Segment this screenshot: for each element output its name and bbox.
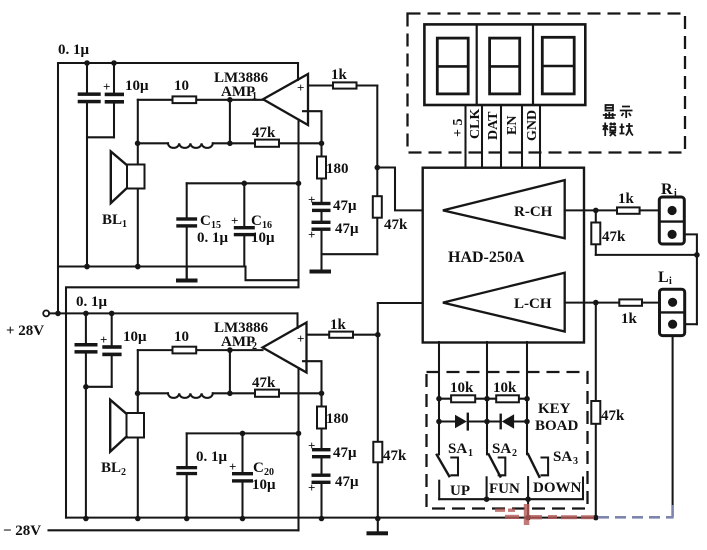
svg-text:EN: EN (505, 116, 520, 135)
wire +28V rail (49, 311, 297, 317)
svg-text:FUN: FUN (489, 481, 520, 497)
wire cap return AMP2 (83, 387, 89, 522)
wire key common rail (439, 478, 583, 500)
svg-text:R: R (661, 181, 673, 198)
diode D2 (487, 414, 527, 429)
wire cap join AMP2 (83, 384, 112, 390)
wire ground rail AMP1 (58, 264, 246, 270)
inductor AMP2 output coil (138, 393, 255, 398)
svg-text:+: + (297, 80, 304, 95)
wire L jack shield drop (672, 336, 674, 505)
svg-text:C: C (253, 460, 264, 476)
capacitor C15 0.1u (176, 183, 228, 278)
inductor AMP1 output coil (138, 143, 255, 148)
svg-text:2: 2 (121, 467, 126, 478)
junction dots top rail AMP1 (84, 60, 117, 66)
node output left leg AMP1 (135, 100, 141, 146)
resistor 180 AMP1 (317, 143, 349, 202)
wire cap return AMP1 (84, 137, 90, 269)
capacitor C16 10u (231, 183, 275, 266)
svg-text:1k: 1k (330, 317, 347, 333)
svg-text:10: 10 (174, 78, 189, 94)
wire R jack ground leg (684, 234, 697, 324)
speaker BL2 (101, 393, 144, 521)
wire -28V line (3, 523, 299, 539)
svg-text:DAT: DAT (486, 111, 501, 140)
ground bottom rail (367, 519, 389, 536)
label display module (CJK) (603, 105, 634, 136)
op-amp U1 LM3886 AMP1 (214, 63, 308, 280)
pin DAT (486, 105, 501, 168)
node output right leg AMP2 (227, 347, 233, 396)
svg-text:SA: SA (448, 441, 467, 457)
resistor 47k L bias (591, 303, 625, 521)
svg-text:+: + (229, 459, 236, 474)
svg-text:CLK: CLK (468, 109, 483, 139)
wire keyboard column 1 (436, 342, 442, 454)
svg-text:C: C (200, 213, 211, 229)
wire cap join AMP1 (87, 136, 114, 138)
switch SA1 (437, 441, 473, 476)
svg-text:180: 180 (326, 411, 349, 427)
resistor 1k L jack (619, 299, 659, 327)
resistor 47k feedback AMP1 (252, 125, 322, 147)
display outer box (424, 24, 585, 105)
7-segment digit 3 (542, 37, 574, 94)
svg-text:L-CH: L-CH (514, 296, 552, 312)
resistor 1k AMP1 input (308, 67, 377, 89)
svg-text:10k: 10k (493, 380, 517, 396)
svg-text:AMP: AMP (221, 84, 255, 100)
wire feedback line AMP2 (C19/C20 top) (187, 431, 302, 437)
svg-text:SA: SA (492, 441, 511, 457)
svg-text:1: 1 (252, 91, 257, 102)
wire AMP1 rail jog to Vee leg (246, 267, 299, 281)
wire bottom ground rail (66, 517, 596, 519)
capacitor 0.1u AMP2 supply (75, 294, 108, 387)
junction dots +28V rail (83, 311, 114, 317)
label KEY BOAD (535, 401, 579, 434)
svg-text:0. 1μ: 0. 1μ (196, 449, 228, 465)
svg-text:47μ: 47μ (333, 445, 357, 461)
capacitor 10u AMP2 supply (100, 313, 147, 386)
svg-text:+ 5: + 5 (451, 119, 466, 137)
svg-text:i: i (674, 188, 677, 199)
capacitor C20 10u (229, 433, 276, 521)
svg-text:i: i (669, 276, 672, 287)
capacitor 47u upper AMP2 (308, 438, 357, 474)
svg-text:GND: GND (525, 110, 540, 141)
pin CLK (468, 105, 483, 168)
svg-text:0. 1μ: 0. 1μ (197, 230, 229, 246)
wire keyboard column 2 (484, 342, 490, 454)
svg-text:+ 28V: + 28V (6, 323, 44, 339)
resistor 10 AMP1 output (138, 78, 263, 103)
svg-text:1: 1 (468, 448, 473, 459)
node output left leg AMP2 (135, 350, 141, 396)
connector R jack (659, 181, 684, 244)
wire L-CH node vertical (375, 303, 381, 521)
watermark red dashes (495, 504, 594, 525)
wire left vertical AMP1 (57, 63, 59, 313)
amplifier L-CH (443, 273, 565, 332)
svg-text:10: 10 (174, 329, 189, 345)
resistor 1k AMP2 input (307, 317, 378, 338)
svg-text:L: L (658, 269, 669, 286)
op-amp U2 LM3886 AMP2 (214, 313, 307, 530)
resistor 47k feedback AMP2 (252, 375, 322, 397)
7-segment digit 2 (490, 38, 520, 94)
diode D1 (439, 414, 487, 430)
svg-text:47μ: 47μ (333, 198, 357, 214)
switch SA2 (489, 441, 517, 477)
svg-text:BL: BL (102, 212, 122, 228)
svg-text:10k: 10k (450, 380, 474, 396)
svg-text:+: + (231, 213, 238, 228)
svg-text:UP: UP (450, 483, 470, 499)
svg-text:+: + (308, 438, 315, 453)
wire R-CH node vertical (375, 86, 381, 255)
svg-text:R-CH: R-CH (514, 204, 553, 220)
wire AMP1 return to bottom (66, 280, 299, 517)
wire inverting input AMP1 (303, 111, 324, 146)
resistor 47k R input load (373, 196, 408, 233)
resistor 10k right (487, 380, 527, 402)
svg-text:C: C (251, 213, 262, 229)
switch SA3 (528, 449, 578, 477)
svg-text:− 28V: − 28V (3, 523, 41, 539)
wire L jack ground leg (685, 323, 697, 325)
svg-text:+: + (308, 227, 315, 242)
svg-text:47k: 47k (384, 217, 408, 233)
capacitor 0.1u AMP1 supply (58, 42, 101, 137)
ground AMP1 rail (186, 267, 188, 279)
wire R-CH input (565, 208, 617, 214)
svg-text:1k: 1k (331, 67, 348, 83)
svg-text:2: 2 (512, 448, 517, 459)
svg-text:DOWN: DOWN (533, 480, 582, 496)
pin +5 (451, 105, 466, 168)
svg-text:47k: 47k (602, 229, 626, 245)
ground AMP1 47u (310, 270, 332, 274)
svg-text:47k: 47k (252, 375, 276, 391)
wire R node to R-CH output (377, 168, 443, 211)
svg-text:1: 1 (122, 219, 127, 230)
svg-text:+: + (103, 79, 110, 94)
wire feedback line AMP1 (C15/C16 top) (187, 181, 302, 187)
svg-text:47μ: 47μ (335, 221, 359, 237)
wire keyboard to ground rail (525, 499, 531, 520)
svg-text:10μ: 10μ (123, 329, 147, 345)
capacitor 47u upper AMP1 (308, 192, 357, 221)
svg-text:0. 1μ: 0. 1μ (76, 294, 108, 310)
7-segment digit 1 (437, 38, 468, 94)
svg-text:0. 1μ: 0. 1μ (58, 42, 90, 58)
svg-text:1k: 1k (618, 191, 635, 207)
wire L node to L-CH output (378, 302, 443, 304)
svg-text:+: + (308, 192, 315, 207)
svg-text:10μ: 10μ (125, 78, 149, 94)
watermark blue wire segment (598, 505, 674, 517)
resistor 47k L input load (373, 442, 407, 464)
wire key FUN drop (484, 477, 520, 502)
svg-text:SA: SA (553, 449, 572, 465)
svg-text:47k: 47k (383, 448, 407, 464)
svg-text:3: 3 (573, 456, 578, 467)
resistor 47k R bias (591, 210, 626, 255)
svg-text:10μ: 10μ (252, 477, 276, 493)
speaker BL1 (102, 143, 145, 269)
capacitor 10u AMP1 supply (103, 63, 149, 137)
wire L-CH input (565, 300, 620, 306)
keyboard dashed box (427, 372, 588, 509)
wire 47u to R node (322, 253, 378, 255)
svg-text:2: 2 (252, 341, 257, 352)
display module dashed box (408, 14, 686, 153)
svg-text:BOAD: BOAD (535, 418, 579, 434)
svg-text:+: + (297, 331, 304, 346)
wire inverting input AMP2 (303, 361, 324, 396)
capacitor 47u lower AMP1 (308, 221, 359, 270)
wire key DOWN drop (525, 477, 581, 502)
resistor 180 AMP2 (317, 393, 349, 448)
wire key UP drop (439, 481, 470, 500)
svg-text:HAD-250A: HAD-250A (448, 249, 525, 266)
svg-text:AMP: AMP (221, 334, 255, 350)
wire +V top rail AMP1 (58, 62, 298, 64)
pin EN (505, 105, 522, 168)
svg-text:47μ: 47μ (335, 474, 359, 490)
svg-text:47k: 47k (601, 408, 625, 424)
connector L jack (658, 269, 685, 336)
resistor 1k R jack (617, 191, 659, 214)
svg-text:1k: 1k (621, 311, 638, 327)
IC HAD-250A box (423, 168, 584, 343)
svg-text:10μ: 10μ (251, 230, 275, 246)
node output right leg AMP1 (227, 97, 233, 146)
svg-text:KEY: KEY (538, 401, 571, 417)
label HAD-250A (448, 249, 525, 266)
resistor 10k left (439, 380, 487, 402)
resistor 10 AMP2 output (138, 329, 263, 353)
svg-text:+: + (308, 480, 315, 495)
node +28V terminal (6, 310, 49, 339)
amplifier R-CH (443, 180, 565, 238)
svg-text:180: 180 (326, 161, 349, 177)
capacitor 47u lower AMP2 (308, 474, 359, 522)
ground C15 (176, 279, 198, 283)
wire keyboard column 3 (524, 342, 530, 454)
svg-text:BL: BL (101, 460, 121, 476)
svg-text:+: + (100, 332, 107, 347)
pin GND (525, 105, 540, 168)
svg-text:47k: 47k (252, 125, 276, 141)
capacitor 0.1u AMP2 local (176, 433, 227, 521)
wire R bias return (596, 252, 700, 258)
